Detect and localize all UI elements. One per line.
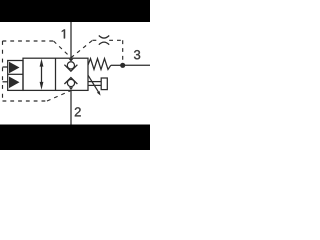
pilot line bottom horizontal (3, 100, 48, 102)
pilot actuator divider (8, 73, 23, 75)
label port 3 (134, 50, 140, 59)
orifice upper arc (99, 36, 109, 39)
ball circle lower (67, 79, 74, 86)
double arrow down head (40, 82, 44, 90)
pilot line down to node 3 (122, 40, 124, 63)
pilot stub lower (3, 81, 8, 83)
pilot line to orifice horizontal (93, 39, 100, 41)
top black band (0, 0, 150, 22)
flow arrowhead at port 2 (69, 87, 73, 90)
ball circle upper (67, 62, 74, 69)
pilot line diagonal to port 1 (54, 41, 72, 58)
flow arrowhead at port 1 (69, 59, 74, 62)
pilot triangle upper (9, 62, 20, 74)
wire port 2 vertical (70, 90, 72, 124)
double arrow shaft (41, 63, 43, 86)
seat roof lower (64, 78, 77, 85)
spring (88, 59, 111, 70)
adjuster arrowhead (97, 91, 101, 96)
wire port 3 horizontal (123, 64, 150, 66)
pilot stub upper (3, 66, 8, 68)
wire spring to node 3 (111, 64, 123, 66)
label port 1 (62, 29, 65, 38)
pilot line from orifice horizontal (109, 39, 123, 41)
seat V upper (64, 65, 77, 72)
adjuster stem upper line (88, 81, 101, 83)
valve position divider (55, 58, 57, 90)
adjuster arrow shaft (88, 75, 99, 93)
valve body envelope (23, 58, 88, 90)
pilot line top-left horizontal (3, 40, 54, 42)
adjuster head (101, 78, 107, 90)
pilot line left vertical (2, 41, 4, 101)
wire port 1 vertical (70, 22, 72, 58)
pilot actuator box (8, 61, 23, 91)
pilot line diagonal to port 2 (47, 91, 70, 101)
node 3 junction dot (120, 63, 125, 68)
double arrow up head (40, 59, 44, 67)
orifice lower arc (99, 42, 109, 45)
pilot line diagonal port 1 to orifice (71, 40, 93, 57)
adjuster stem lower line (88, 84, 101, 86)
pilot triangle lower (9, 77, 20, 89)
bottom black band (0, 125, 150, 151)
label port 2 (75, 107, 81, 116)
